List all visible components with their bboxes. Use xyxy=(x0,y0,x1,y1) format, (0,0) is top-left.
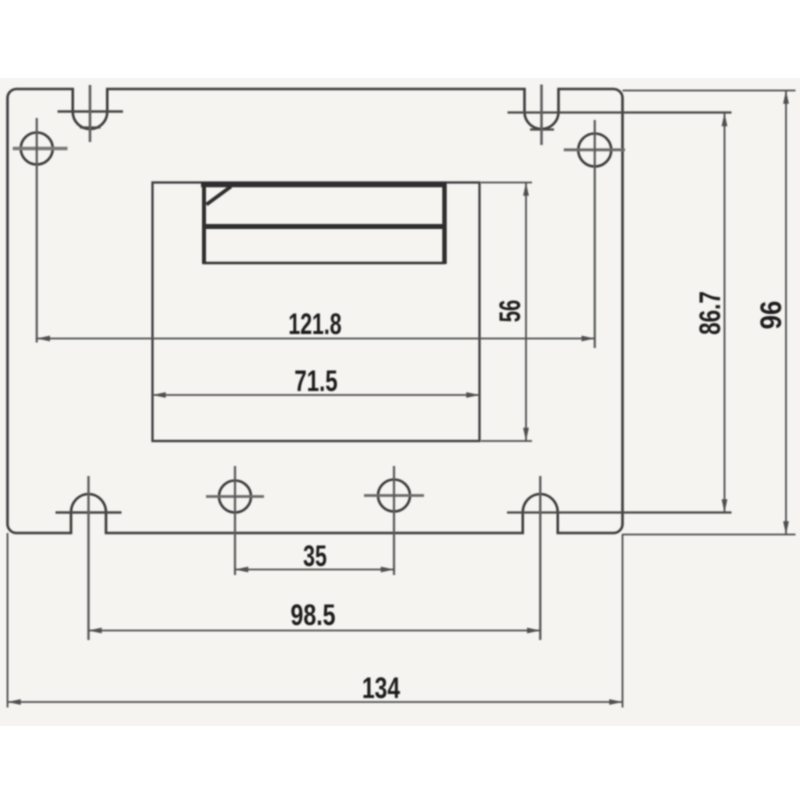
top-right slot ledge / 86.7 top extension line xyxy=(508,111,732,113)
dimension 98.5 line xyxy=(89,630,541,632)
dimension 71.5 line xyxy=(153,394,480,396)
dimension 134 left arrow xyxy=(8,699,21,705)
top-right hole horizontal centerline xyxy=(564,148,625,151)
svg-text:121.8: 121.8 xyxy=(288,306,341,341)
dimension 96 extension bottom xyxy=(623,534,796,536)
bottom-right slot ledge / 86.7 bottom extension line xyxy=(507,511,732,513)
bottom-left hole xyxy=(219,481,251,513)
top-right hole xyxy=(578,134,611,167)
dimension 56 extension bottom xyxy=(481,440,532,442)
dimension 96 bottom arrow xyxy=(783,521,789,534)
dimension 86.7 bottom arrow xyxy=(722,499,728,512)
dimension 121.8 line xyxy=(37,338,595,340)
dimension 56 extension top xyxy=(481,182,532,184)
svg-text:98.5: 98.5 xyxy=(291,598,336,632)
bottom-left slot ledge line xyxy=(56,511,122,514)
svg-text:71.5: 71.5 xyxy=(294,364,337,398)
svg-text:56: 56 xyxy=(494,300,527,323)
dimension 96 extension top xyxy=(623,90,796,92)
svg-text:96: 96 xyxy=(754,301,787,330)
bottom-left hole horizontal centerline xyxy=(206,495,264,498)
bottom-left hole vertical centerline / 35 extension xyxy=(234,466,236,575)
connector middle thick bar xyxy=(202,224,446,229)
dimension 121.8 left arrow xyxy=(37,336,50,342)
dimension 86.7 line xyxy=(724,113,726,513)
top-right slot bottom tick xyxy=(530,128,554,130)
window cutout rectangle xyxy=(153,183,480,442)
top-left slot bottom tick xyxy=(80,126,101,128)
dimension 121.8 right arrow xyxy=(582,336,595,342)
dimension 56 top arrow xyxy=(523,183,529,196)
dimension 96 top arrow xyxy=(783,91,789,104)
dimension 71.5 right arrow xyxy=(466,392,479,398)
bottom-left slot centerline / 98.5 extension xyxy=(87,476,89,640)
connector corner diagonal xyxy=(207,187,232,205)
dimension 35 right arrow xyxy=(381,567,394,573)
bottom-right slot centerline / 98.5 extension xyxy=(539,476,541,640)
top-left hole vertical centerline / 121.8 extension xyxy=(36,118,38,343)
svg-text:86.7: 86.7 xyxy=(693,291,727,335)
dimension 134 right extension xyxy=(622,534,624,708)
dimension 35 line xyxy=(235,569,394,571)
dimension 56 bottom arrow xyxy=(523,428,529,441)
top-left slot centerline xyxy=(89,85,92,142)
connector left edge xyxy=(202,183,206,264)
top-left hole xyxy=(21,133,53,165)
plate outline xyxy=(8,89,623,533)
dimension 96 line xyxy=(785,91,787,535)
dimension 86.7 top arrow xyxy=(722,113,728,126)
connector right edge xyxy=(442,183,447,264)
dimension 35 left arrow xyxy=(235,567,248,573)
svg-text:35: 35 xyxy=(303,538,327,573)
top-left slot ledge line xyxy=(58,110,124,113)
dimension 98.5 left arrow xyxy=(89,628,102,634)
top-right slot centerline xyxy=(540,85,543,146)
connector top thick bar xyxy=(201,182,447,188)
dimension 134 right arrow xyxy=(609,699,622,705)
dimension 98.5 right arrow xyxy=(527,628,540,634)
connector bottom line xyxy=(203,262,445,265)
dimension 134 left extension xyxy=(7,533,9,708)
top-right hole vertical centerline / 121.8 extension xyxy=(594,120,596,348)
dimension 56 line xyxy=(525,183,527,442)
bottom-right hole horizontal centerline xyxy=(364,494,424,497)
dimension 71.5 left arrow xyxy=(153,392,166,398)
top-left hole horizontal centerline xyxy=(13,147,68,150)
bottom-right hole vertical centerline / 35 extension xyxy=(393,466,395,575)
dimension 134 line xyxy=(8,701,623,703)
bottom-right hole xyxy=(378,480,410,512)
svg-text:134: 134 xyxy=(362,671,400,705)
